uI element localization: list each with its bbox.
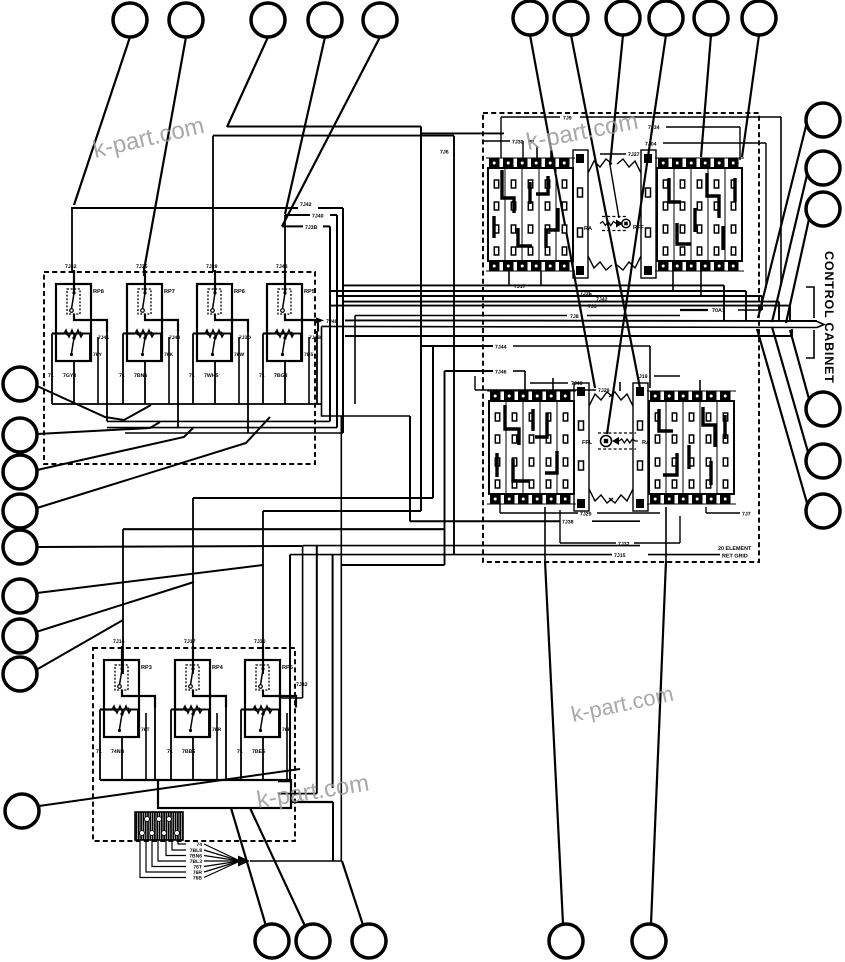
svg-text:76B: 76B (193, 876, 203, 882)
svg-text:7J3E: 7J3E (580, 291, 593, 297)
wire 7J29 bottom drop (499, 494, 501, 513)
wire 7J2 drop (789, 306, 791, 322)
wire 7J44 a (421, 345, 493, 347)
wire 7J17 long (343, 284, 724, 286)
svg-text:RP8: RP8 (93, 289, 104, 295)
svg-text:7J44: 7J44 (495, 345, 507, 351)
wire to B5 (665, 507, 667, 561)
trunk line bottom (322, 326, 818, 327)
callout circle T3 (251, 3, 285, 37)
terminal stub u3 (508, 271, 510, 285)
terminals lower right bottom (650, 494, 731, 504)
wire RP4 out lower (225, 707, 227, 780)
leader B4 (545, 561, 563, 924)
bracket lower (806, 330, 814, 358)
wire y565 (341, 564, 444, 566)
wire 7J17 drop (723, 285, 725, 321)
svg-text:7J3: 7J3 (588, 304, 597, 310)
leader L9 (39, 769, 300, 806)
svg-text:7J04: 7J04 (645, 142, 657, 148)
wire 7J32 bottom b (634, 542, 680, 544)
callout circle T5 (363, 3, 397, 37)
wire vert x433 (432, 346, 434, 498)
callout circle T6 (513, 1, 547, 35)
callout circle L2 (3, 418, 37, 452)
svg-text:7J17: 7J17 (514, 284, 526, 290)
svg-text:RET GRID: RET GRID (722, 554, 748, 560)
svg-text:7J3B: 7J3B (305, 225, 318, 231)
callout circle T11 (742, 1, 776, 35)
leader R5 (772, 327, 808, 452)
wire 7J2 long (331, 305, 790, 307)
leader B5 (651, 561, 666, 924)
terminals upper right top (658, 158, 739, 168)
svg-text:7J38: 7J38 (562, 520, 574, 526)
leader R2 (772, 175, 807, 322)
wire 7J30u b (528, 140, 534, 142)
wire 7J42b long (337, 295, 762, 297)
svg-text:7J48: 7J48 (326, 319, 338, 325)
wire 7J3 long (343, 301, 779, 303)
callout circle L9 (5, 794, 39, 828)
svg-text:7J27: 7J27 (628, 152, 640, 158)
wire 7J30u a (483, 140, 510, 142)
wire 7J32 bottom drop (559, 510, 561, 543)
callout circle L6 (3, 579, 37, 613)
bracket upper (806, 287, 814, 318)
callout circle R2 (806, 151, 840, 185)
svg-text:RP4: RP4 (212, 665, 224, 671)
terminal stub u6 (700, 271, 702, 296)
trunk arrow (817, 322, 824, 328)
leader L1 (37, 386, 151, 420)
relay RP7 (123, 270, 178, 361)
wire 7J40 horiz a (285, 214, 310, 216)
callout circle L7 (3, 619, 37, 653)
callout circle B2 (296, 924, 330, 958)
callout circle L8 (3, 657, 37, 691)
wire 7J19 (654, 375, 680, 377)
leader R4 (790, 330, 809, 399)
svg-text:7J15: 7J15 (614, 553, 626, 559)
svg-text:7J35: 7J35 (136, 264, 148, 270)
bus bar box (158, 780, 291, 808)
feed wire 7J16 (122, 529, 124, 674)
bus A1 (52, 403, 322, 405)
wire 7J40 vert (336, 215, 338, 428)
wire 7J8 b (587, 315, 680, 317)
wire 7J04 (663, 142, 766, 144)
wire 7J40 horiz b (330, 214, 337, 216)
svg-text:70A1: 70A1 (712, 308, 725, 314)
bus A3 (107, 427, 337, 429)
leader T4 (285, 37, 325, 214)
svg-text:7J34: 7J34 (648, 125, 660, 131)
svg-text:7J29: 7J29 (598, 388, 610, 394)
leader T3 (227, 37, 268, 127)
wing strip upper right (641, 150, 656, 278)
callout circle R3 (806, 192, 840, 226)
wire vert x332 (332, 555, 334, 788)
callout circle B4 (549, 924, 583, 958)
wire 7J40 lower (530, 382, 568, 384)
callout circle R4 (806, 392, 840, 426)
svg-text:71: 71 (189, 373, 195, 379)
jumper traces lower left (497, 405, 557, 481)
callout circle B5 (632, 924, 666, 958)
svg-text:7J29: 7J29 (206, 264, 218, 270)
wire 7J32 vert (302, 546, 304, 698)
svg-text:7J3D: 7J3D (239, 335, 251, 341)
svg-text:20 ELEMENT: 20 ELEMENT (718, 546, 752, 552)
svg-text:7J42: 7J42 (300, 202, 312, 208)
wire thin RP3 lower (145, 713, 147, 780)
wire centre RP6 (214, 361, 216, 404)
wire 7J8 a (355, 315, 567, 317)
leader R1 (758, 126, 806, 318)
leader B2 (250, 808, 305, 926)
leader L6 (37, 565, 263, 593)
connector block upper right (655, 158, 744, 271)
vertical wire x410 (409, 416, 411, 521)
wire centre RP5 (284, 361, 286, 404)
svg-text:7J6: 7J6 (440, 150, 449, 156)
leader L4 (37, 417, 270, 508)
leader T10 (701, 35, 711, 157)
svg-text:71: 71 (48, 373, 54, 379)
wire 7J3E long (331, 290, 746, 292)
wire x333 drop (332, 802, 334, 861)
jumper traces upper left (494, 170, 558, 248)
wire thin RP4 lower (216, 713, 218, 780)
wire 7J8 drop (354, 316, 356, 405)
wire y793 stub (278, 793, 317, 795)
connector pin fan-out wires (178, 840, 186, 844)
wire left RP4 lower (170, 710, 172, 781)
svg-text:7J8: 7J8 (570, 314, 579, 320)
callout circle L3 (3, 455, 37, 489)
terminal stub u5 (672, 271, 674, 291)
wire left RP5 (262, 334, 264, 405)
wire 7J46 drop (524, 371, 526, 391)
trunk jog (791, 329, 793, 336)
wing strip lower right (633, 383, 648, 511)
leader T8 (610, 35, 623, 165)
wire 7J3B vert (329, 226, 331, 421)
terminals lower left bottom (490, 494, 571, 504)
contact slots lower left (495, 413, 567, 488)
contact slots lower right (655, 413, 727, 488)
trunk line top (345, 319, 817, 322)
callout circle L5 (3, 530, 37, 564)
svg-text:RA: RA (584, 226, 592, 232)
svg-text:7J40: 7J40 (312, 214, 324, 220)
wire 7J46 a (445, 370, 494, 372)
wire 7J7 drop (705, 507, 707, 513)
wire left RP6 (192, 334, 194, 405)
relay RP8 (52, 270, 107, 361)
wire y781 stub (278, 780, 290, 782)
feed wire 7J48 (284, 215, 286, 272)
svg-text:7J29: 7J29 (580, 512, 592, 518)
svg-text:RP5: RP5 (282, 665, 293, 671)
wire vert x444 (444, 371, 446, 565)
callout circle R5 (806, 444, 840, 478)
callout circle T7 (554, 1, 588, 35)
wire 7J15 a (290, 554, 612, 556)
wire 7J3E drop (745, 291, 747, 322)
wire 7J42 horiz a (71, 207, 298, 209)
wire to RA-RFF (610, 165, 619, 218)
wire top horiz 1 (227, 126, 421, 128)
wire RP6 out (247, 331, 249, 433)
wire 7J32 horiz (280, 697, 303, 699)
wire top horiz 2 (213, 135, 454, 137)
wire 7J34 drop (739, 127, 741, 160)
leader T6 (530, 35, 595, 388)
wire vert x290 (289, 555, 291, 782)
relay RP5 (263, 270, 318, 361)
wire RP3 out lower (154, 707, 156, 780)
callout circle L1 (3, 367, 37, 401)
leader T2 (144, 37, 186, 270)
wire 7J04 drop (765, 143, 767, 288)
arrow 7J48 (316, 317, 324, 323)
wire 7J3B horiz a (282, 225, 303, 227)
svg-text:RP6: RP6 (234, 289, 245, 295)
leader L5 (37, 546, 302, 547)
svg-text:7WH5: 7WH5 (204, 373, 219, 379)
callout circle R6 (806, 494, 840, 528)
terminal stub l3 (699, 380, 701, 391)
svg-text:RA: RA (642, 440, 650, 446)
svg-text:RFF: RFF (633, 225, 644, 231)
svg-text:71: 71 (237, 749, 243, 755)
wing strip lower left (574, 383, 589, 511)
svg-text:7J19: 7J19 (636, 374, 648, 380)
leader T7 (571, 35, 640, 388)
wire 7J29 bottom a (500, 512, 578, 514)
svg-text:RP5: RP5 (304, 289, 315, 295)
wire top horiz 1b (421, 132, 504, 134)
wire centre RP4 lower (192, 737, 194, 780)
wire thin RP5 (308, 337, 310, 404)
feed wire 7J17 (192, 498, 194, 674)
callout circle T1 (113, 3, 147, 37)
trunk line 3 (345, 335, 792, 337)
svg-text:7J7: 7J7 (742, 512, 751, 518)
svg-text:FFL: FFL (582, 440, 593, 446)
wire y802 (291, 801, 333, 803)
wire y545 (303, 545, 640, 547)
wire centre RP5 lower (262, 737, 264, 780)
terminals upper right bottom (658, 261, 739, 271)
leader B1 (231, 808, 266, 926)
svg-text:7J42: 7J42 (596, 297, 608, 303)
wire RP5a out (316, 331, 318, 404)
jumper traces upper right (669, 173, 735, 250)
detail RA-RFF upper (584, 217, 644, 233)
leader B3 (342, 861, 363, 925)
wire 7J29 drop (474, 376, 476, 390)
contact slots upper left (494, 180, 566, 255)
wire 7J29 bottom b (597, 512, 660, 514)
dashed box relay group B (93, 648, 295, 841)
hood outline lower bottom (589, 489, 613, 503)
terminals upper left top (489, 158, 570, 168)
wire centre RP3 lower (121, 737, 123, 780)
hood outline upper bottom (588, 256, 612, 270)
wire 7J34 (666, 126, 740, 128)
connector block lower right (647, 391, 736, 504)
wire thin RP8 (97, 337, 99, 404)
svg-text:7J42: 7J42 (65, 264, 77, 270)
wire vert x421 (420, 127, 422, 512)
wire 7J42 vert (342, 208, 344, 433)
wire thin RP7 (168, 337, 170, 404)
wire left RP5 lower (240, 710, 242, 781)
wire 70A1 a (680, 309, 708, 311)
jumper traces lower right (659, 407, 725, 485)
leader L2 (37, 422, 160, 434)
wire 7J15 b (648, 554, 720, 556)
wire 7J3B horiz b (323, 225, 330, 227)
wire 7J29 lower (475, 389, 596, 391)
svg-text:7J30: 7J30 (254, 639, 266, 645)
dashed box control cabinet grid (483, 113, 759, 562)
wire vert x316 (316, 546, 318, 794)
bus A2 (107, 420, 330, 422)
callout circle B3 (352, 924, 386, 958)
svg-text:7J4B: 7J4B (309, 335, 321, 341)
callout circle T2 (169, 3, 203, 37)
callout circle T8 (606, 1, 640, 35)
wire 7J30u drop (522, 141, 524, 158)
wire 7J32 bottom drop2 (679, 516, 681, 543)
wire thin RP6 (238, 337, 240, 404)
contact slots upper right (663, 180, 735, 255)
terminal stub u4 (540, 271, 542, 285)
wire left RP8 (51, 334, 53, 405)
wire left RP3 lower (99, 710, 101, 781)
wire 7J7 (706, 512, 740, 514)
wire y511 (263, 510, 421, 512)
bus A1 jog (322, 404, 411, 416)
svg-text:RP7: RP7 (164, 289, 175, 295)
leader T5 (282, 37, 380, 226)
wire from arrow (250, 860, 341, 862)
feed wire 7J35 (143, 266, 145, 276)
wire RP8 out (106, 331, 108, 421)
svg-text:7J30: 7J30 (512, 140, 524, 146)
svg-text:RP3: RP3 (141, 665, 152, 671)
leader L7 (36, 582, 194, 632)
callout circle L4 (3, 494, 37, 528)
terminal stub u2 (550, 150, 552, 158)
dashed box relay group A (44, 272, 315, 464)
wire 7J32 bottom a (560, 542, 616, 544)
terminal stub l1 (552, 378, 554, 391)
hood outline upper top (588, 159, 612, 173)
feed wire 7J29 (212, 136, 214, 272)
arrow junction (238, 856, 250, 867)
wire 7J46 b (513, 370, 525, 372)
relay RP6 (193, 270, 248, 361)
wire y530 (123, 528, 444, 530)
leader L8 (36, 620, 123, 670)
wire left RP7 (122, 334, 124, 405)
wire 7J44 drop (649, 346, 651, 388)
leader T11 (742, 35, 759, 157)
callout circle R1 (806, 103, 840, 137)
terminal stub u1 (536, 146, 538, 158)
wire 7J42 horiz b (318, 207, 343, 209)
relay RP5 (lower) (241, 646, 296, 737)
terminals lower left top (490, 391, 571, 401)
wire centre RP8 (73, 361, 75, 404)
wire centre RP7 (144, 361, 146, 404)
detail FFL-RA lower (582, 433, 650, 449)
svg-text:CONTROL CABINET: CONTROL CABINET (822, 251, 836, 384)
relay RP4 (lower) (171, 646, 226, 737)
wire RP7 out (177, 331, 179, 428)
wire 7J9 b (580, 116, 781, 118)
hood outline lower top (589, 392, 613, 406)
svg-text:7J17: 7J17 (184, 639, 196, 645)
terminals upper left bottom (489, 261, 570, 271)
wire 7J9 drop (500, 117, 502, 158)
relay RP3 (lower) (100, 646, 155, 737)
wire 7J42b drop (761, 296, 763, 310)
wire 7J38 b (592, 520, 640, 522)
callout circle T9 (649, 1, 683, 35)
svg-text:71: 71 (259, 373, 265, 379)
feed wire 7J30 (262, 511, 264, 674)
feed wire 7J42 (71, 208, 73, 272)
connector block lower left (487, 391, 576, 504)
wire 7J44 b (513, 345, 650, 347)
svg-text:7J46: 7J46 (495, 370, 507, 376)
terminals lower right top (650, 391, 731, 401)
wire 7J38 a (410, 520, 560, 522)
leader T9 (607, 35, 666, 434)
connector block upper left (486, 158, 575, 271)
leader R3 (786, 219, 809, 323)
vertical wire x321 (321, 326, 323, 404)
wire to B4 (544, 507, 546, 561)
wire bus top extension (100, 779, 160, 781)
leader R6 (757, 329, 807, 503)
svg-text:7J48: 7J48 (276, 264, 288, 270)
wire vert x341 (340, 416, 342, 861)
wire 7J27 (600, 153, 626, 155)
wire 7J3 drop (778, 302, 780, 322)
callout circle T4 (308, 3, 342, 37)
svg-text:71: 71 (167, 749, 173, 755)
wire y498 (193, 497, 433, 499)
bus A4 (125, 432, 343, 434)
svg-text:71: 71 (96, 749, 102, 755)
leader L3 (37, 428, 193, 470)
leader T1 (74, 37, 130, 205)
callout circle T10 (694, 1, 728, 35)
svg-text:7J40: 7J40 (571, 381, 583, 387)
callout circle B1 (255, 924, 289, 958)
wire thin RP5 lower (286, 713, 288, 780)
wire 7J6 vert (453, 136, 455, 555)
wire 70A1 b (738, 309, 762, 311)
terminal stub l2 (619, 382, 621, 391)
